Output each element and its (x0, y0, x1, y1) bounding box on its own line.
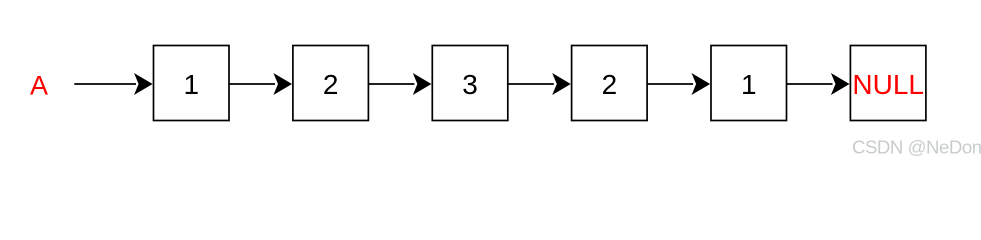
svg-text:CSDN @NeDon: CSDN @NeDon (852, 137, 981, 158)
svg-text:2: 2 (602, 69, 618, 100)
svg-text:1: 1 (184, 69, 200, 100)
svg-text:3: 3 (462, 69, 478, 100)
arrowhead into node 2 (273, 73, 292, 95)
arrowhead into NULL (831, 73, 850, 95)
wire node 5 to NULL (787, 83, 833, 85)
wire node 1 to node 2 (229, 83, 275, 85)
wire A to node 1 (74, 83, 136, 85)
svg-text:1: 1 (741, 69, 757, 100)
node 1 box (154, 46, 230, 121)
arrowhead into node 5 (692, 73, 711, 95)
node 3 box (432, 46, 508, 121)
svg-text:NULL: NULL (852, 69, 924, 100)
arrowhead into node 4 (552, 73, 571, 95)
svg-text:2: 2 (323, 69, 339, 100)
node 2 box (293, 46, 369, 121)
NULL box (850, 46, 926, 121)
wire node 2 to node 3 (368, 83, 414, 85)
wire node 3 to node 4 (508, 83, 554, 85)
svg-text:A: A (30, 71, 48, 101)
node 5 box (711, 46, 787, 121)
arrowhead into node 3 (413, 73, 432, 95)
wire node 4 to node 5 (647, 83, 693, 85)
arrowhead into node 1 (134, 73, 153, 95)
node 4 box (572, 46, 648, 121)
